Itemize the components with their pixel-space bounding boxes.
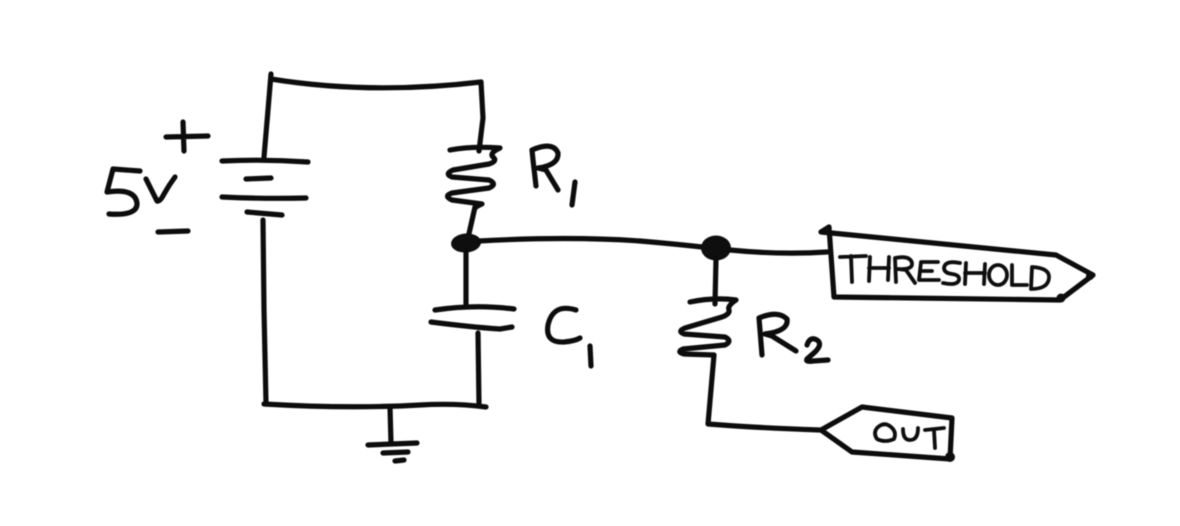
- capacitor C1 top plate: [435, 307, 514, 310]
- resistor R2: [680, 299, 736, 355]
- label THRESHOLD letter D: [1031, 267, 1049, 289]
- battery V1 plate long lower: [222, 197, 306, 198]
- wire node B to THRESHOLD flag: [730, 250, 827, 253]
- label battery plus sign: [166, 122, 208, 151]
- wire battery bottom stem: [263, 220, 266, 403]
- resistor R1: [448, 147, 501, 208]
- ground bar 3: [395, 460, 404, 461]
- label OUT letter U: [903, 428, 918, 440]
- ground stem: [390, 407, 391, 443]
- label THRESHOLD letter E: [919, 262, 939, 280]
- battery V1 plate short upper: [246, 178, 271, 179]
- label THRESHOLD letter S: [943, 262, 960, 284]
- wire node A to node B: [479, 239, 702, 248]
- THRESHOLD flag corner ink: [1086, 272, 1094, 280]
- label R1 letter R: [532, 146, 558, 190]
- wire battery top stem: [264, 74, 271, 157]
- label THRESHOLD letter L: [1012, 265, 1027, 285]
- label OUT letter O: [875, 424, 895, 441]
- node B junction dot: [701, 236, 731, 261]
- label battery minus sign: [158, 231, 188, 232]
- label THRESHOLD letter O: [989, 265, 1007, 285]
- label R2 letter R: [759, 314, 796, 355]
- OUT flag outline: [821, 407, 952, 459]
- wire top horizontal: [271, 79, 481, 88]
- label R1 subscript 1: [572, 182, 575, 205]
- wire R1 to node A: [468, 207, 475, 238]
- label THRESHOLD letter H: [869, 257, 889, 281]
- ground bar 1: [368, 443, 417, 445]
- capacitor C1 bottom plate: [431, 322, 512, 329]
- battery V1 plate long top: [222, 160, 308, 162]
- label THRESHOLD letter H: [965, 263, 985, 284]
- label THRESHOLD letter T: [840, 256, 866, 282]
- label R2 subscript 2: [807, 339, 828, 361]
- THRESHOLD flag outline: [821, 227, 1093, 300]
- wire C1 to bottom rail: [478, 333, 479, 404]
- label battery 5v letter v: [146, 177, 175, 201]
- wire R2 to OUT: [708, 355, 820, 430]
- label OUT letter T: [925, 428, 944, 448]
- label battery 5v digit 5: [107, 169, 140, 214]
- battery V1 plate short bottom: [247, 212, 282, 215]
- wire right vertical to R1: [479, 82, 483, 151]
- label THRESHOLD letter R: [895, 257, 915, 283]
- wire node B down to R2: [715, 259, 716, 304]
- wire bottom rail: [264, 404, 486, 407]
- node A junction dot: [450, 232, 481, 253]
- OUT flag corner ink: [945, 452, 955, 462]
- label C1 subscript 1: [590, 346, 591, 366]
- wire node A down to C1: [463, 251, 468, 306]
- label C1 letter C: [548, 308, 580, 342]
- ground bar 2: [383, 452, 408, 453]
